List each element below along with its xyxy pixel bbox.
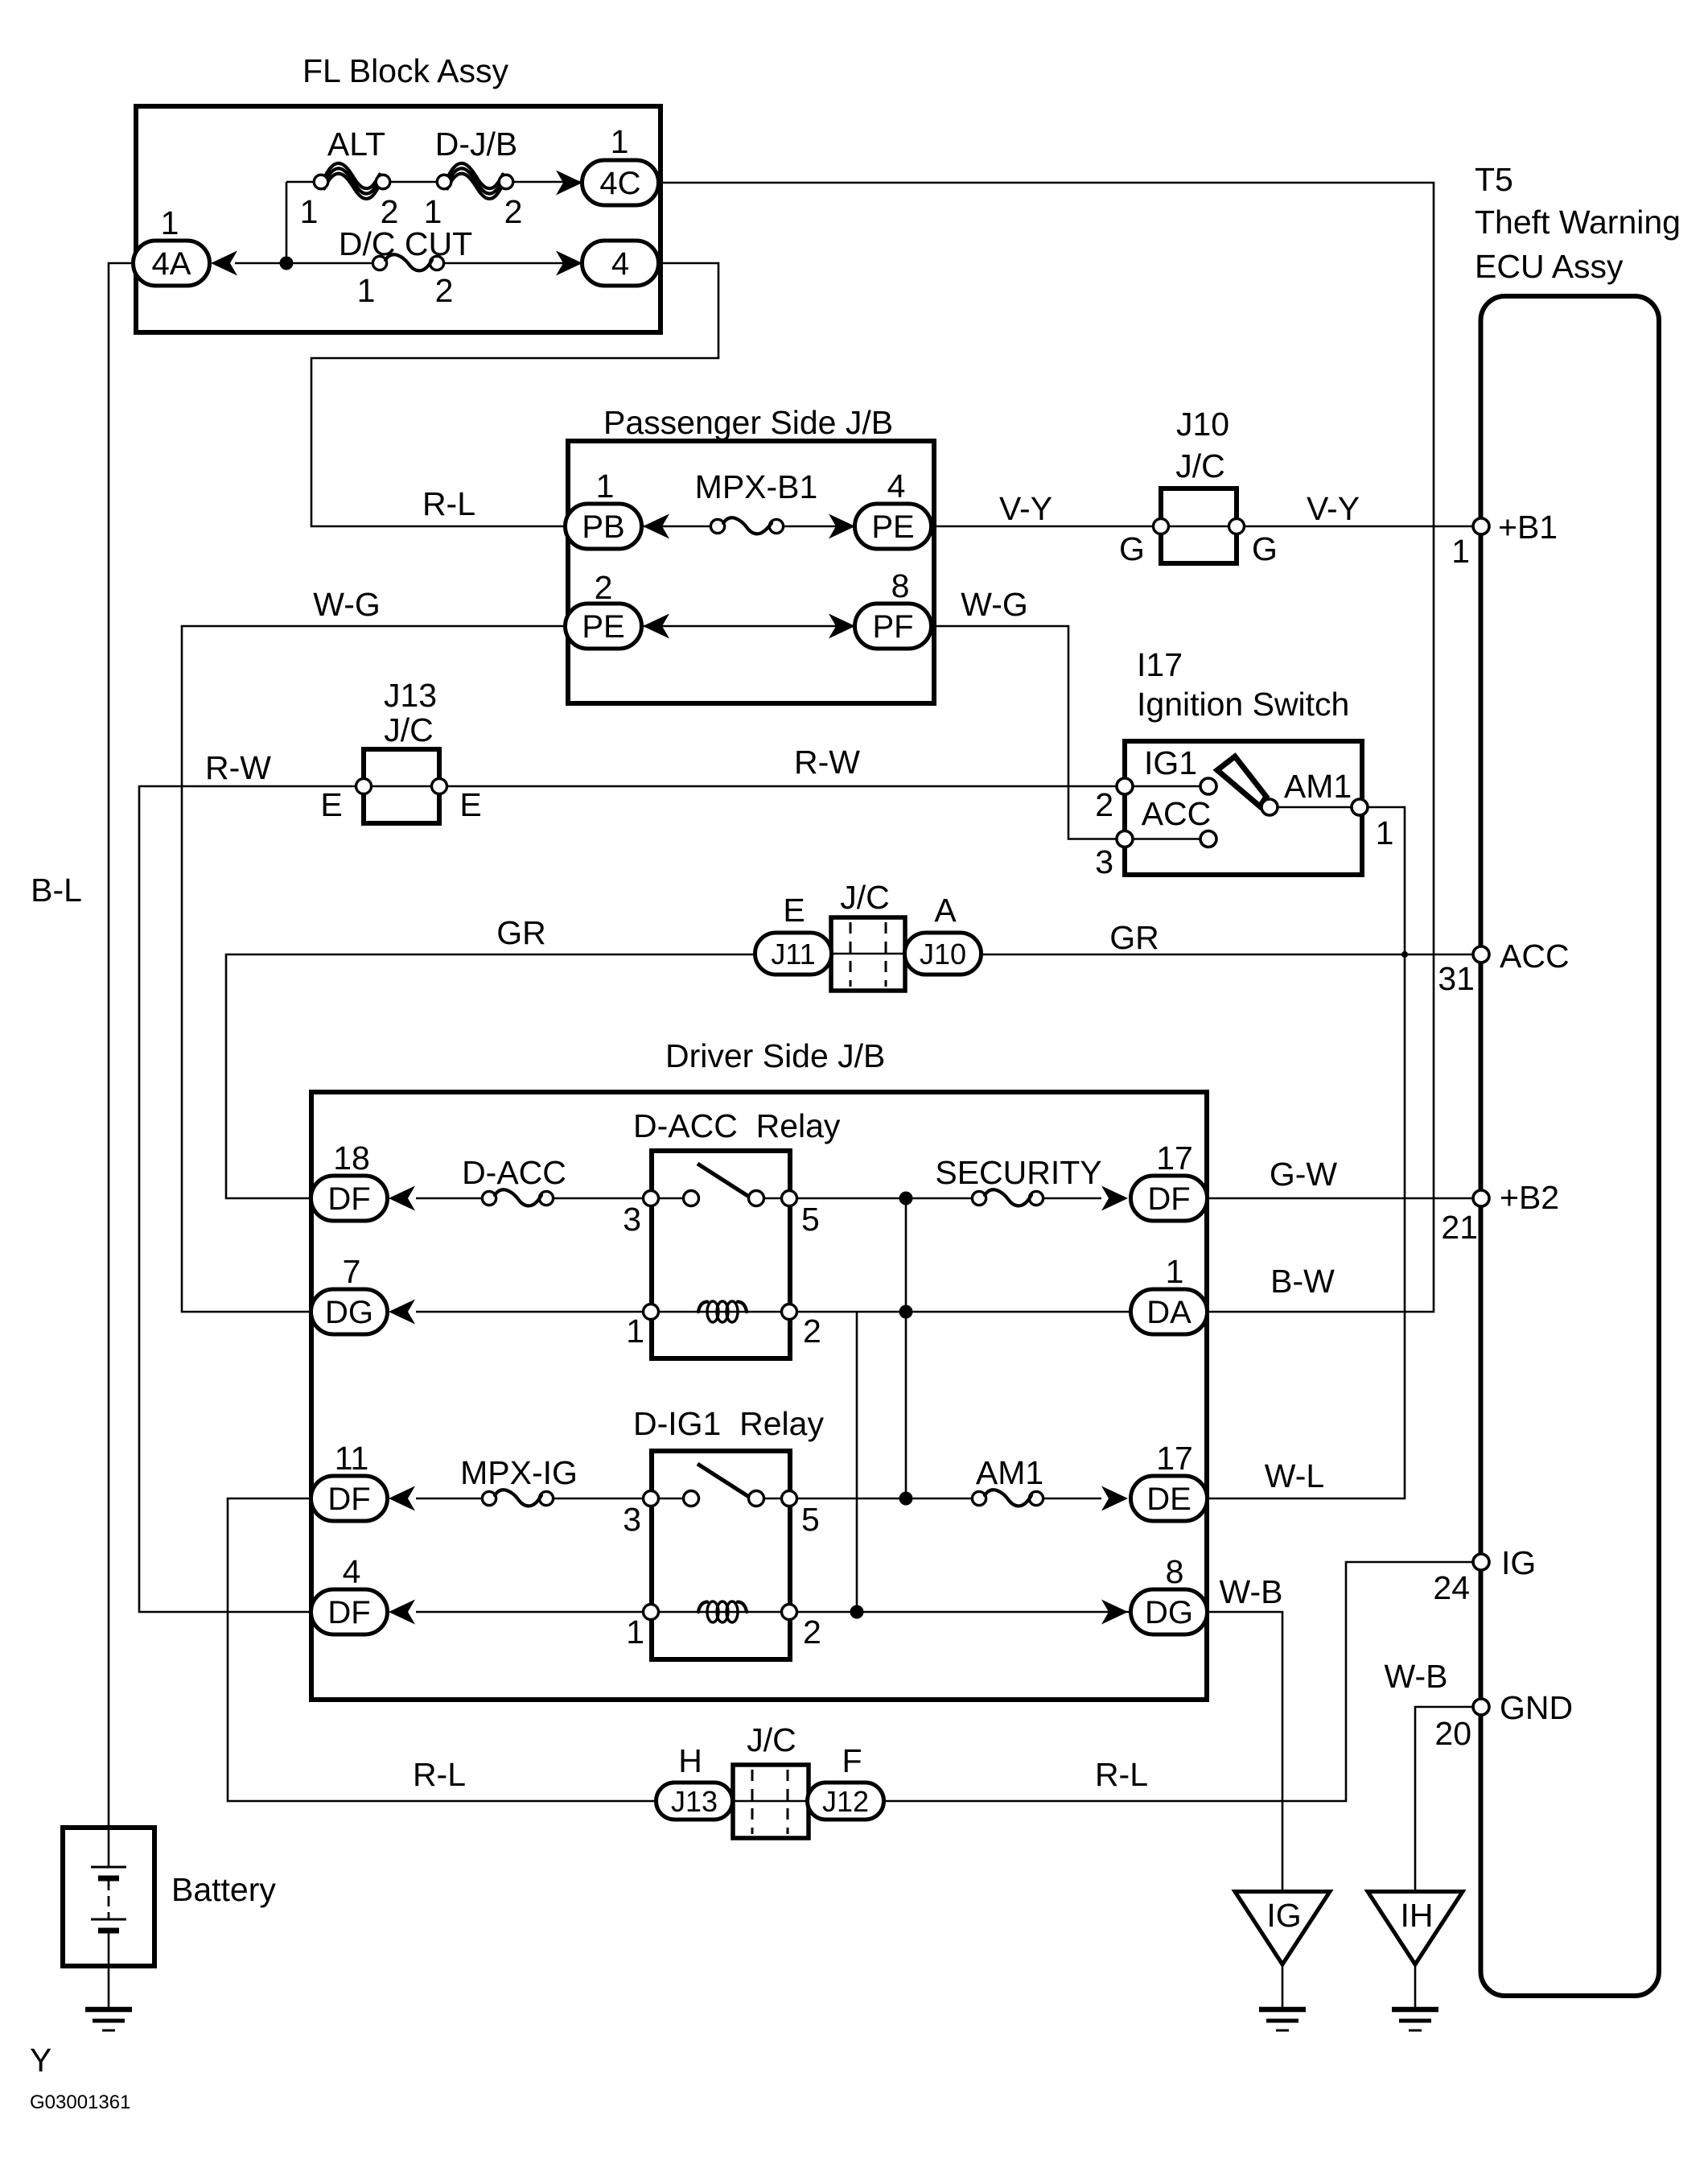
connector J13 (656, 1783, 733, 1820)
svg-text:17: 17 (1156, 1140, 1193, 1177)
svg-text:MPX-B1: MPX-B1 (695, 468, 818, 505)
svg-text:MPX-IG: MPX-IG (460, 1454, 578, 1491)
fusible link D-J/B (437, 163, 513, 199)
pin 24 IG (1473, 1554, 1489, 1570)
node D-IG1 row junction (899, 1492, 913, 1506)
wire D-IG1 contact stubs (658, 1498, 782, 1500)
svg-text:3: 3 (1095, 843, 1113, 880)
arrow into PB (643, 514, 669, 539)
svg-text:IG: IG (1501, 1544, 1536, 1581)
arrow into 4A (211, 251, 237, 276)
svg-text:DG: DG (1145, 1595, 1193, 1630)
wire coil pin 2 to DA1 (796, 1311, 1132, 1313)
svg-text:11: 11 (335, 1440, 369, 1477)
svg-text:1: 1 (1376, 814, 1394, 851)
svg-text:J13: J13 (671, 1785, 718, 1818)
arrow into PE (829, 514, 855, 539)
wire B-W net 4C to DA1 (659, 183, 1434, 1312)
wire AM1 contact stub (1278, 806, 1352, 809)
svg-text:2: 2 (435, 272, 454, 309)
svg-text:1: 1 (1451, 533, 1470, 570)
wire W-G net PF to ignition pin 3 (932, 626, 1117, 839)
connector J12 (808, 1783, 884, 1820)
svg-text:I17: I17 (1137, 646, 1183, 683)
pin 21 +B2 (1473, 1190, 1489, 1206)
svg-text:R-W: R-W (794, 744, 860, 781)
connector 4A (134, 241, 210, 286)
svg-text:PE: PE (871, 509, 914, 545)
svg-text:B-L: B-L (31, 872, 82, 909)
svg-text:4: 4 (887, 468, 906, 505)
battery B1 (63, 1828, 154, 1966)
J13/J12 J/C dashed box (733, 1765, 809, 1838)
arrow into DF 4 (389, 1600, 415, 1625)
wire PE-PF row (641, 625, 855, 628)
svg-text:W-G: W-G (313, 586, 381, 623)
triangle connector IG (1235, 1892, 1330, 1965)
svg-text:ACC: ACC (1500, 938, 1570, 975)
svg-text:17: 17 (1156, 1440, 1193, 1477)
connector 4C (582, 160, 659, 205)
svg-text:D-ACC Relay: D-ACC Relay (633, 1107, 841, 1144)
wire coil pin 2 to DG8 (796, 1611, 1132, 1614)
svg-text:DF: DF (1147, 1181, 1190, 1217)
svg-text:A: A (934, 892, 957, 929)
connector J10 (905, 933, 982, 975)
svg-text:V-Y: V-Y (1307, 490, 1360, 527)
fuse MPX-IG (482, 1490, 553, 1506)
arrow into DF 17 (1101, 1186, 1128, 1211)
arrow into 4 (556, 251, 582, 276)
J11/J10 J/C dashed box (831, 917, 905, 991)
wire DF18 to D-ACC fuse (416, 1197, 644, 1200)
wire GR net ACC pin 31 to DF18 (226, 954, 1473, 1198)
svg-text:4A: 4A (152, 246, 191, 282)
arrow into DE 17 (1101, 1486, 1128, 1511)
svg-text:24: 24 (1433, 1569, 1470, 1606)
svg-text:5: 5 (801, 1201, 820, 1238)
svg-text:3: 3 (623, 1501, 641, 1538)
svg-text:2: 2 (504, 193, 523, 230)
svg-text:IH: IH (1401, 1897, 1434, 1934)
svg-text:8: 8 (891, 567, 910, 604)
node DG8 row junction (850, 1605, 864, 1619)
svg-text:7: 7 (343, 1253, 361, 1290)
svg-text:R-W: R-W (205, 749, 271, 786)
svg-text:4: 4 (343, 1553, 361, 1590)
svg-text:GR: GR (496, 914, 546, 951)
connector PB pin 1 (566, 504, 642, 549)
fuse D-ACC (482, 1189, 553, 1206)
pin 31 ACC (1473, 946, 1489, 962)
node GR crossing artifact dot (1401, 951, 1408, 958)
FL Block Assy box (136, 106, 661, 332)
svg-text:ECU Assy: ECU Assy (1475, 248, 1624, 285)
svg-text:1: 1 (626, 1614, 644, 1651)
svg-text:SECURITY: SECURITY (935, 1154, 1101, 1191)
svg-text:4: 4 (611, 246, 629, 282)
fuse AM1 (972, 1490, 1043, 1506)
wire V-Y net PE to +B1 (932, 526, 1473, 528)
svg-text:3: 3 (623, 1201, 641, 1238)
ground under IH triangle (1392, 2009, 1438, 2030)
relay D-IG1 contact (644, 1464, 797, 1506)
svg-text:DG: DG (325, 1295, 373, 1330)
svg-text:W-B: W-B (1385, 1658, 1448, 1695)
svg-text:DF: DF (327, 1482, 370, 1517)
svg-text:1: 1 (300, 193, 319, 230)
ignition pin 3 (1117, 831, 1133, 847)
svg-text:ACC: ACC (1142, 795, 1212, 832)
svg-text:1: 1 (357, 272, 376, 309)
ignition switch I17 box (1125, 741, 1362, 875)
svg-text:G: G (1252, 530, 1278, 567)
svg-text:Ignition Switch: Ignition Switch (1137, 686, 1349, 723)
svg-text:PF: PF (872, 609, 913, 645)
wire battery negative to ground (108, 1933, 110, 2009)
lever pivot circle (1261, 799, 1278, 815)
svg-text:IG1: IG1 (1144, 744, 1197, 781)
svg-text:D-J/B: D-J/B (435, 126, 518, 163)
svg-text:J/C: J/C (840, 879, 890, 916)
svg-text:DE: DE (1146, 1482, 1191, 1517)
connector J11 (755, 933, 832, 975)
fuse SECURITY (972, 1189, 1043, 1206)
svg-text:GR: GR (1109, 919, 1159, 956)
svg-text:2: 2 (803, 1614, 821, 1651)
connector DE pin 17 (1131, 1476, 1208, 1521)
svg-text:G-W: G-W (1270, 1156, 1338, 1193)
svg-text:G: G (1119, 530, 1145, 567)
svg-text:H: H (678, 1742, 702, 1779)
svg-text:Battery: Battery (171, 1871, 276, 1908)
connector 4 (582, 241, 659, 286)
wire junction bus vertical (905, 1198, 908, 1498)
connector DF pin 18 (311, 1176, 388, 1221)
connector PE pin 4 (855, 504, 932, 549)
arrow into DG 8 (1101, 1600, 1128, 1625)
wire FL D/C CUT row (235, 262, 582, 265)
pin 1 +B1 (1473, 518, 1489, 534)
svg-text:2: 2 (803, 1313, 821, 1350)
svg-text:1: 1 (626, 1313, 644, 1350)
svg-text:18: 18 (333, 1140, 370, 1177)
D-ACC relay box (652, 1151, 790, 1358)
wire G-W net DF17 to +B2 (1207, 1197, 1473, 1200)
wire R-L net DF11 to IG pin 24 (228, 1498, 1473, 1801)
svg-text:2: 2 (595, 569, 613, 606)
relay D-IG1 coil (644, 1601, 797, 1622)
svg-text:W-L: W-L (1265, 1457, 1324, 1494)
node FL junction (280, 257, 294, 270)
ground under IG triangle (1259, 2009, 1306, 2030)
wire DF4 to coil pin 1 (416, 1611, 643, 1614)
svg-text:ALT: ALT (327, 126, 385, 163)
fuse MPX-B1 (710, 517, 783, 534)
wire B-L from 4A to battery (109, 263, 134, 1828)
svg-text:D-IG1 Relay: D-IG1 Relay (633, 1405, 824, 1442)
svg-text:E: E (320, 786, 342, 823)
wire W-B net DG8 to IG triangle (1207, 1612, 1282, 1891)
wire W-L net AM1 to DE17 (1207, 807, 1405, 1498)
svg-text:D-ACC: D-ACC (462, 1154, 566, 1191)
svg-text:DA: DA (1146, 1295, 1191, 1330)
connector PF pin 8 (855, 604, 932, 649)
wire battery positive stem (108, 1830, 110, 1867)
wire MPX-B1 row (641, 526, 855, 528)
arrow into DF 11 (389, 1486, 415, 1511)
J10 J/C box on V-Y (1154, 488, 1245, 563)
Passenger Side J/B box (568, 441, 934, 703)
Theft Warning ECU T5 body (1481, 296, 1660, 1996)
svg-text:PE: PE (582, 609, 624, 645)
svg-text:F: F (842, 1742, 862, 1779)
svg-text:E: E (459, 786, 481, 823)
svg-text:DF: DF (327, 1181, 370, 1217)
pin 20 GND (1473, 1699, 1489, 1715)
IG1 contact circle (1200, 778, 1216, 794)
svg-text:4C: 4C (599, 166, 640, 201)
fuse D/C CUT (372, 254, 443, 270)
D-IG1 relay box (652, 1451, 790, 1659)
svg-text:R-L: R-L (413, 1756, 466, 1793)
connector DG pin 7 (311, 1289, 388, 1334)
svg-text:W-G: W-G (961, 586, 1028, 623)
svg-text:T5: T5 (1475, 161, 1513, 198)
svg-text:J/C: J/C (747, 1721, 796, 1758)
wire FL branch vertical (286, 182, 288, 263)
arrow into PE 2 (643, 614, 669, 639)
node coil row junction (899, 1305, 913, 1319)
svg-text:J11: J11 (771, 938, 815, 971)
connector PE pin 2 (566, 604, 642, 649)
wire IH triangle to ground (1414, 1964, 1417, 2009)
ground under battery (85, 2009, 132, 2030)
svg-text:1: 1 (1166, 1253, 1184, 1290)
svg-text:Driver Side J/B: Driver Side J/B (665, 1037, 885, 1074)
connector DF pin 4 (311, 1589, 388, 1634)
wire IG1 contact stub (1133, 785, 1200, 788)
svg-text:PB: PB (582, 509, 624, 545)
connector DA pin 1 (1131, 1289, 1208, 1334)
wire IG triangle to ground (1282, 1964, 1284, 2009)
relay D-ACC contact (644, 1164, 797, 1206)
wire FL ALT row (286, 181, 582, 183)
svg-text:8: 8 (1166, 1553, 1184, 1590)
switch lever (1217, 756, 1266, 806)
svg-text:J/C: J/C (1175, 447, 1225, 484)
wire W-B net IH triangle to GND pin (1415, 1707, 1473, 1891)
ACC contact circle (1200, 831, 1216, 847)
svg-text:D/C CUT: D/C CUT (339, 225, 472, 262)
svg-text:G03001361: G03001361 (30, 2092, 130, 2113)
svg-text:V-Y: V-Y (999, 490, 1052, 527)
wire R-L net 4 to PB (311, 263, 718, 526)
wire D-ACC contact stubs (658, 1197, 782, 1200)
wire DG7 to coil pin 1 (416, 1311, 643, 1313)
svg-text:J13: J13 (384, 677, 437, 714)
svg-text:5: 5 (801, 1501, 820, 1538)
arrow into DG 7 (389, 1300, 415, 1325)
svg-text:DF: DF (327, 1595, 370, 1630)
svg-text:R-L: R-L (422, 485, 475, 522)
svg-text:J12: J12 (822, 1785, 869, 1818)
wire DF11 to MPX-IG fuse (416, 1498, 643, 1500)
arrow into PF (829, 614, 855, 639)
wire W-G net PE to DG7 (182, 626, 568, 1312)
AM1 pin 1 circle (1352, 799, 1368, 815)
svg-text:FL Block Assy: FL Block Assy (303, 52, 508, 89)
svg-text:Theft Warning: Theft Warning (1475, 204, 1681, 241)
svg-text:+B2: +B2 (1500, 1179, 1559, 1216)
svg-text:B-W: B-W (1270, 1263, 1335, 1300)
J13 J/C box on R-W (356, 749, 447, 823)
fusible link ALT (314, 163, 390, 199)
Driver Side J/B box (311, 1092, 1207, 1700)
connector DF pin 11 (311, 1476, 388, 1521)
svg-text:J10: J10 (1176, 406, 1229, 443)
svg-text:J/C: J/C (384, 711, 434, 748)
svg-text:GND: GND (1500, 1689, 1573, 1726)
wire relay 5 to AM1 fuse (796, 1498, 1101, 1500)
svg-text:AM1: AM1 (976, 1454, 1043, 1491)
svg-text:Passenger Side J/B: Passenger Side J/B (603, 404, 893, 441)
wire coil 2 branch vertical (856, 1312, 858, 1612)
svg-text:2: 2 (1095, 786, 1113, 823)
wire R-W net ignition pin 2 to DF4 (139, 786, 1117, 1612)
svg-text:E: E (783, 892, 805, 929)
svg-text:W-B: W-B (1220, 1573, 1283, 1610)
node D-ACC output junction (899, 1192, 913, 1206)
arrow into DF 18 (389, 1186, 415, 1211)
wire relay 5 to SECURITY fuse (796, 1197, 1101, 1200)
arrow into 4C (556, 171, 582, 196)
svg-text:R-L: R-L (1095, 1756, 1148, 1793)
connector DG pin 8 (1131, 1589, 1208, 1634)
relay D-ACC coil (644, 1301, 797, 1322)
svg-text:J10: J10 (920, 938, 966, 971)
svg-text:AM1: AM1 (1284, 768, 1352, 805)
svg-text:Y: Y (30, 2042, 51, 2079)
svg-text:31: 31 (1438, 960, 1475, 997)
triangle connector IH (1368, 1892, 1463, 1965)
svg-text:1: 1 (161, 204, 179, 241)
svg-text:+B1: +B1 (1498, 509, 1558, 546)
svg-text:20: 20 (1434, 1715, 1471, 1752)
svg-text:21: 21 (1441, 1209, 1478, 1246)
svg-text:IG: IG (1266, 1897, 1301, 1934)
svg-text:1: 1 (611, 123, 629, 160)
wire ACC contact stub (1133, 838, 1200, 840)
svg-text:1: 1 (596, 468, 615, 505)
ignition pin 2 (1117, 778, 1133, 794)
connector DF pin 17 (1131, 1176, 1208, 1221)
